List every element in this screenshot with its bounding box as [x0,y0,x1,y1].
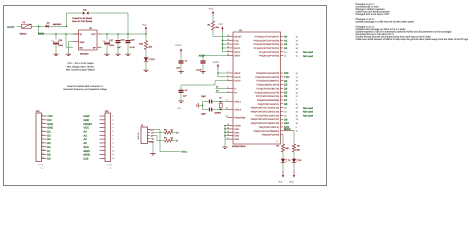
pin PD4(ICP1/ADC8/CTS) (25) right [257,87,299,90]
svg-text:XTAL2: XTAL2 [234,109,241,112]
svg-text:UCAP: UCAP [234,80,241,83]
USB pin ID [148,137,155,140]
power symbol VCC reset pullup [212,11,214,16]
svg-text:GND: GND [234,128,239,131]
JP2 pin 8 A0 [84,142,114,146]
pin VBUS (7) left [227,71,241,76]
svg-text:2: 2 [42,117,43,120]
svg-text:GND: GND [80,41,85,44]
svg-text:GND: GND [234,131,239,134]
svg-text:4: 4 [227,90,228,93]
svg-text:10: 10 [42,148,44,151]
pin PE6(INT6/AIN0/HWB) (1) right [257,99,298,102]
svg-text:SCK: SCK [84,146,90,149]
svg-text:0.1uF: 0.1uF [196,69,202,72]
svg-text:35: 35 [227,130,229,133]
svg-text:D3: D3 [284,84,288,87]
svg-text:5: 5 [227,137,228,140]
svg-text:PD3(TXD1/SCK1/INT3): PD3(TXD1/SCK1/INT3) [256,76,280,79]
pin PB3(PDO/MISO) (11) right [254,128,298,133]
svg-text:Not used: Not used [303,55,314,58]
pin BP stub [97,46,102,48]
capacitor C14 [201,60,206,63]
svg-text:Max Current Output: 500mA: Max Current Output: 500mA [66,68,96,71]
crystal Y1 [219,102,222,110]
svg-text:D10: D10 [284,122,289,125]
junction VCC arrow [145,33,147,35]
junction ground riser [202,105,204,107]
wire UVCC to VBUS and UVCC pins [217,69,219,77]
svg-text:PE2(HWB): PE2(HWB) [234,116,245,119]
svg-text:MOSI: MOSI [84,154,91,157]
svg-text:PB6(PCINT6/OC1B/ADC13): PB6(PCINT6/OC1B/ADC13) [251,111,280,114]
svg-text:RXI: RXI [47,119,52,122]
svg-text:A2: A2 [84,134,88,137]
wire C6 to ground [180,93,182,101]
wire LED D5 to VCC arrow [293,164,295,171]
svg-text:UVCC: UVCC [213,61,220,64]
svg-text:PB5(PCINT5/OC1A/ADC12): PB5(PCINT5/OC1A/ADC12) [251,118,280,121]
wire UVCC to fuse F1 [17,25,22,27]
wire to capacitor C16 [55,34,57,40]
svg-text:5: 5 [112,130,113,133]
pin D+ (4) left [227,90,238,95]
pin PB0(SS/PCINT0) (8) right [262,134,283,143]
svg-text:15: 15 [227,123,229,126]
svg-text:A2: A2 [284,43,288,46]
pin header JP2 [105,113,111,162]
svg-text:43: 43 [227,133,229,136]
svg-text:VCC = 5V or 3.3V Output: VCC = 5V or 3.3V Output [67,62,94,65]
svg-text:8: 8 [276,140,277,143]
wire R6 to D+ label [173,132,176,134]
wire UVCC arrow to C7 [180,55,182,61]
svg-text:Not used: Not used [303,111,314,114]
pin PD0(OC0B/SCL/INT0) (18) right [257,84,299,87]
wire XTAL1 row [214,101,228,103]
svg-text:6: 6 [227,78,228,81]
ground left of crystal (rotated) [197,103,198,108]
svg-text:10uF: 10uF [58,44,63,47]
JP1 pin 8 D5 [42,140,52,145]
changelog notes text block [356,3,469,41]
svg-text:D3: D3 [47,134,51,137]
microcontroller U1 ATMEGA32U4 [233,32,281,144]
pin PD3(TXD1/SCK1/INT3) (21) right [256,76,299,79]
svg-text:PF7(ADC7/TDI/PCINT7): PF7(ADC7/TDI/PCINT7) [255,35,280,38]
JP1 pin 11 D8 [42,152,52,157]
svg-text:GND: GND [234,135,239,138]
junction GND rail [224,125,226,127]
wire R2 to LED D4 [282,152,284,158]
pin UGND (15) left [227,123,241,128]
svg-text:UVCC: UVCC [7,26,14,29]
wire to C20 [127,34,129,40]
svg-text:7: 7 [42,137,43,140]
wire C19 to ground [117,43,119,54]
svg-text:MISO: MISO [284,128,291,131]
junction C19 [117,33,119,35]
ground below C7 [178,72,183,73]
svg-text:PTH: PTH [40,167,44,170]
wire XTAL2 row [214,109,228,111]
schematic frame border [4,6,327,186]
svg-text:3: 3 [112,122,113,125]
svg-text:PE6(INT6/AIN0/HWB): PE6(INT6/AIN0/HWB) [257,99,279,102]
pin GND (5) left [227,137,240,142]
USB pin D+ [148,134,155,137]
USB connector J1 [141,127,148,144]
JP1 pin 7 D4 [42,137,52,142]
svg-text:TXO: TXO [47,115,52,118]
svg-text:11: 11 [42,152,44,155]
svg-text:1: 1 [42,114,43,117]
svg-text:UVCC: UVCC [234,76,241,79]
USB pin GND [148,140,155,143]
pin GND stub and wire to ground [73,41,79,43]
svg-text:33: 33 [226,115,228,118]
wires VCC AVCC stubs [223,39,228,41]
svg-text:GND: GND [84,119,90,122]
svg-text:500mA: 500mA [20,33,27,36]
svg-text:9: 9 [42,144,43,147]
wire VCC rail down MCU left [222,32,224,52]
wire caps to ground riser [203,101,209,103]
wire VCC to R1 [212,16,214,21]
svg-text:PF0(ADC0/PCINT0): PF0(ADC0/PCINT0) [259,55,280,58]
ground below USB [150,154,155,155]
ground below C17 [104,54,109,55]
pin PF6(ADC6/TDO/PCINT6) (37) right [254,39,299,42]
svg-text:2: 2 [112,118,113,121]
JP1 pin 2 RXI [42,117,52,122]
svg-text:D-: D- [151,131,153,134]
LED D4 TX [281,158,287,164]
svg-text:MIC5219: MIC5219 [80,52,89,55]
power LED D21 [144,56,150,62]
ground below C16 [53,54,58,55]
svg-text:GND: GND [149,140,154,143]
wire to C19 [117,34,119,40]
svg-text:D5: D5 [284,91,288,94]
svg-text:5: 5 [42,129,43,132]
wire LED to ground [145,62,147,70]
svg-text:ATMEGA32U4: ATMEGA32U4 [232,145,246,148]
JP1 pin 12 D9 [42,156,52,161]
svg-text:D9: D9 [47,157,51,160]
svg-text:OUT: OUT [91,33,96,36]
svg-text:Not used: Not used [303,114,314,117]
svg-text:UVCC: UVCC [175,44,182,47]
ground below MCU [222,147,227,148]
wire LED D4 to VCC arrow [282,164,284,171]
svg-text:13: 13 [227,34,229,37]
wire D+ pin down to R7 row [153,136,165,141]
wire bypass jumper left segment [67,12,83,14]
junction GND rail [224,135,226,137]
pin PF1(ADC1/PCINT1) (40) right [259,51,314,54]
svg-text:VBUS: VBUS [234,72,241,75]
junction C20 [127,33,129,35]
wire C14 to ground [202,64,204,72]
svg-text:USB-AB: USB-AB [137,132,140,140]
JP2 pin 4 VCC [84,126,114,130]
svg-text:AVCC: AVCC [234,51,240,54]
svg-text:D9: D9 [284,118,288,121]
wire C16 to ground [55,45,57,54]
pin PE2(HWB) (33) left [226,115,246,120]
svg-text:TXO: TXO [284,76,289,79]
svg-text:RXI: RXI [284,72,289,75]
JP2 pin 12 D10 [84,157,115,161]
wire EN tie riser [65,34,67,47]
svg-text:PD7(T0/OC4D/ADC10): PD7(T0/OC4D/ADC10) [256,95,280,98]
power symbol VCC for MCU [221,27,223,32]
pin PC6(OC3A/OC4A/ICP3) (31) right [255,91,299,94]
svg-text:PD0(OC0B/SCL/INT0): PD0(OC0B/SCL/INT0) [257,84,280,87]
svg-text:D5: D5 [47,142,51,145]
power symbol VCC below RX LED [293,171,295,178]
pin PF5(ADC5/TMS/PCINT5) (38) right [254,43,299,46]
JP2 pin 2 GND [84,118,114,122]
svg-text:EN: EN [80,46,83,49]
JP1 pin 9 D6 [42,144,52,149]
wire C17 to ground [106,45,108,54]
junction GND rail [224,128,226,130]
wire AREF to C14 [209,55,228,57]
pin XTAL2 (16) left [226,107,242,112]
svg-text:RESET: RESET [234,35,242,38]
diode D1 [46,25,49,28]
pin GND (35) left [227,130,240,135]
capacitor C20 [126,40,131,43]
JP2 pin 6 A2 [84,134,114,138]
pin GND (43) left [227,133,240,138]
pin OUT stub [97,33,102,35]
wire diode to jumper riser [49,25,66,27]
wire D- to net label [216,87,228,89]
svg-text:A3: A3 [84,131,88,134]
wire riser down to RAW rail [38,26,40,34]
svg-text:D8: D8 [47,154,51,157]
svg-text:Not used: Not used [303,107,314,110]
svg-text:D-: D- [234,87,237,90]
svg-text:14: 14 [227,38,229,41]
resistor R2 [281,144,284,152]
svg-text:GND: GND [177,107,182,110]
pin XTAL1 (17) left [226,99,242,104]
svg-text:GND: GND [47,127,53,130]
svg-text:D7: D7 [284,99,288,102]
svg-text:VCC: VCC [289,181,294,184]
svg-text:RESET: RESET [84,123,93,126]
svg-text:44: 44 [227,49,229,52]
ground below C14 [200,72,205,73]
junction crystal top [220,101,222,103]
capacitor C8 [209,100,212,104]
svg-text:MBR0520: MBR0520 [53,23,61,26]
svg-text:VCC: VCC [209,8,214,11]
JP2 pin 10 MISO [84,149,115,153]
power symbol UVCC for VBUS [217,64,219,69]
USB pin D- [148,131,154,134]
JP2 pin 9 SCK [84,145,114,149]
JP2 pin 3 RESET [84,122,114,126]
pin VCC (14) left [227,38,239,43]
svg-text:PF1(ADC1/PCINT1): PF1(ADC1/PCINT1) [259,51,280,54]
junction VCC pin 2 [222,43,224,45]
JP1 pin 1 TXO [42,114,53,119]
junction after fuse [38,26,40,28]
fuse F1 [21,24,32,28]
svg-text:UGND: UGND [234,125,241,128]
svg-text:8: 8 [42,140,43,143]
pin PB4(PCINT4/ADC11) (28) right [258,103,299,106]
pin AVCC (24) left [227,45,241,50]
svg-text:RAW: RAW [84,115,91,118]
pin UVCC (2) left [227,74,241,79]
svg-text:D2: D2 [284,80,288,83]
svg-text:24: 24 [227,45,229,48]
power symbol UVCC [180,49,182,55]
capacitor C16 (polarised) [51,39,59,44]
ground below power LED [143,70,148,71]
wire UCAP to C6 [181,81,227,90]
wire fuse to diode D1 [32,25,45,27]
svg-text:D4: D4 [284,88,288,91]
junction AVCC pin 1 [222,47,224,49]
power symbol VCC [145,27,147,35]
wire bypass jumper right segment [89,12,128,14]
pin PC7(ICP3/CLK0/OC4A) (32) right [255,114,313,117]
pin PB5(PCINT5/OC1A/ADC12) (29) right [251,107,314,110]
svg-text:11: 11 [112,153,114,156]
resistor R1 [211,21,214,30]
pin PD7(T0/OC4D/ADC10) (27) right [256,95,299,98]
svg-text:12: 12 [112,157,114,160]
svg-text:42: 42 [227,53,229,56]
wire riser up to bypass jumper [66,13,68,26]
voltage regulator U2 [79,30,98,50]
svg-text:PD4(ICP1/ADC8/CTS): PD4(ICP1/ADC8/CTS) [257,87,280,90]
wire C20 to ground [127,43,129,54]
svg-text:12: 12 [42,156,44,159]
svg-text:3: 3 [42,121,43,124]
junction at jumper riser [66,26,68,28]
svg-text:8: 8 [112,142,113,145]
svg-text:PD2(RXD1/AIN1/INT2): PD2(RXD1/AIN1/INT2) [256,72,279,75]
junction C17 [106,33,108,35]
resistor R21 [144,41,147,50]
capacitor C19 [116,40,121,43]
svg-text:22pF: 22pF [201,113,206,116]
resistor R7 [165,139,173,142]
svg-text:VCC: VCC [234,43,239,46]
wire C7 to ground [180,64,182,72]
svg-text:D6: D6 [47,146,51,149]
svg-text:AVCC: AVCC [234,47,240,50]
svg-text:PF6(ADC6/TDO/PCINT6): PF6(ADC6/TDO/PCINT6) [254,39,280,42]
svg-text:Not used: Not used [303,51,314,54]
wire VCC rail to resistor R21 [145,34,147,41]
ground below C19 [115,54,120,55]
svg-text:D8: D8 [284,103,288,106]
svg-text:XTAL1: XTAL1 [234,101,241,104]
svg-text:Updated package on USB micro-B: Updated package on USB micro-B (3 side s… [356,20,414,23]
svg-text:7: 7 [227,71,228,74]
svg-text:PD1(SDA/OC0B/INT1): PD1(SDA/OC0B/INT1) [256,80,279,83]
svg-text:17: 17 [226,99,228,102]
svg-text:MISO: MISO [84,150,91,153]
pin PF0(ADC0/PCINT0) (41) right [259,55,314,58]
svg-text:7: 7 [112,138,113,141]
JP1 pin 6 D3 [42,133,52,138]
pin PB6(PCINT6/OC1B/ADC13) (30) right [251,122,299,125]
junction VBUS [217,72,219,74]
wire bypass down to VCC rail [127,13,129,34]
svg-text:Added two small squares of Mik: Added two small squares of Mikrot to hel… [356,38,469,41]
pin AREF (42) left [227,53,241,58]
svg-text:16MHz: 16MHz [214,112,221,115]
ground below C20 [125,54,130,55]
wire R1 to RESET pin [213,30,227,36]
svg-text:D7: D7 [47,150,51,153]
svg-text:3: 3 [227,86,228,89]
svg-text:AREF: AREF [234,55,241,58]
capacitor C6 [179,90,184,93]
svg-text:PB1(PCINT1/SCLK): PB1(PCINT1/SCLK) [259,126,280,129]
svg-text:4.7uF: 4.7uF [130,46,136,49]
wire USB GND to ground [152,142,154,154]
svg-text:4: 4 [42,125,43,128]
pin header JP1 [36,113,42,162]
svg-text:GND: GND [47,123,53,126]
wire GND rail [224,126,226,140]
LED D5 RX [292,158,298,164]
svg-text:PF5(ADC5/TMS/PCINT5): PF5(ADC5/TMS/PCINT5) [254,43,280,46]
pin PF4(ADC4/TCK/PCINT4) (39) right [254,47,299,50]
pin UCAP (6) left [227,78,241,83]
pin PF7(ADC7/TDI/PCINT7) (36) right [255,35,299,38]
svg-text:Closed for 5V Board: Closed for 5V Board [72,17,92,20]
svg-text:D4: D4 [47,138,51,141]
wire R21 to LED D21 [145,50,147,57]
ground below regulator GND pin [66,54,71,55]
svg-text:11: 11 [296,130,298,133]
svg-text:Board is marked with connector: Board is marked with connector of [67,85,103,88]
svg-text:PB4(PCINT4/ADC11): PB4(PCINT4/ADC11) [258,103,280,106]
svg-text:resonator frequency and regula: resonator frequency and regulated voltag… [63,88,107,91]
svg-text:4: 4 [112,126,113,129]
JP1 pin 5 D2 [42,129,52,134]
JP1 pin 4 GND [42,125,54,130]
pin PB1(PCINT1/SCLK) (9) right [259,126,298,129]
junction GND rail [224,132,226,134]
JP2 pin 1 RAW [84,115,114,119]
capacitor C9 [209,108,212,112]
wire R7 to D- label [173,140,176,142]
VCC output rail [102,33,146,35]
svg-text:10: 10 [112,149,114,152]
wire R3 to LED D5 [293,152,295,158]
junction C16 [55,33,57,35]
junction crystal bottom [220,109,222,111]
JP1 pin 3 GND [42,121,54,126]
JP1 pin 10 D7 [42,148,52,153]
svg-text:23: 23 [227,126,229,129]
wire D- to R6 [153,132,165,134]
JP2 pin 7 A1 [84,138,114,142]
